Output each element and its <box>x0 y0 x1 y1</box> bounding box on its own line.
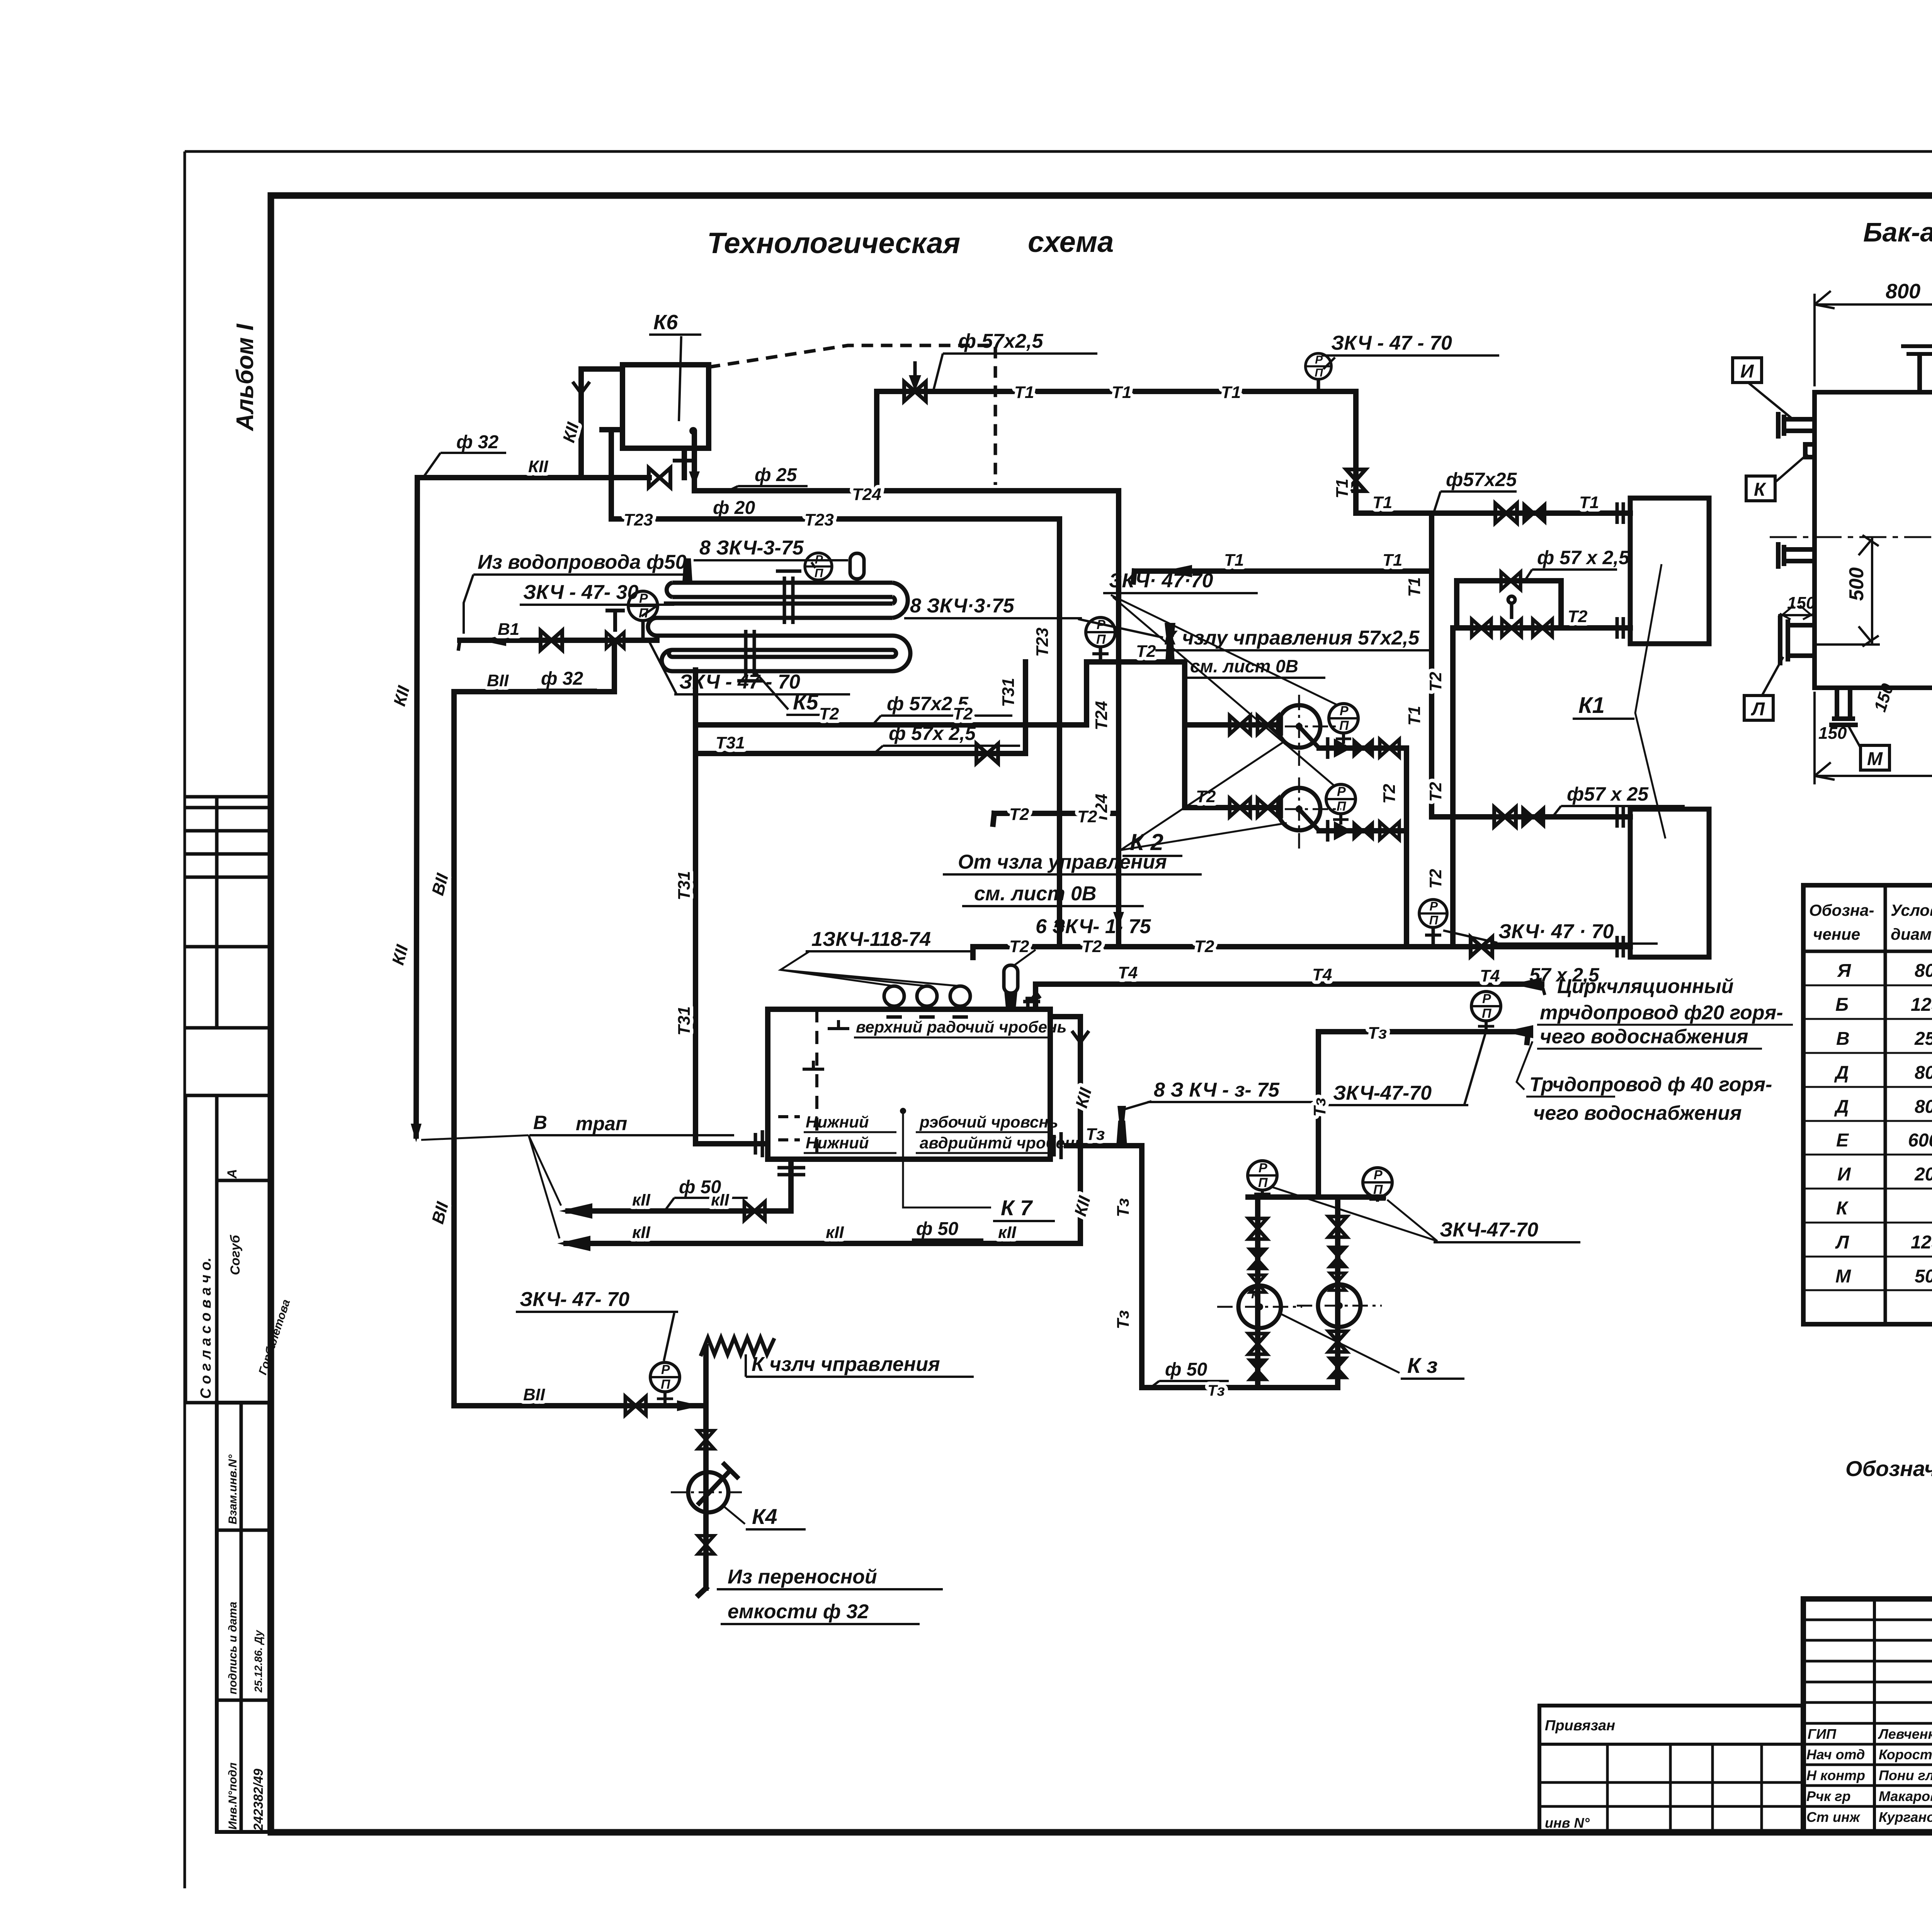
svg-text:трап: трап <box>576 1113 627 1134</box>
svg-text:Т1: Т1 <box>1405 706 1424 726</box>
flange K1a T2 <box>1617 617 1623 639</box>
manhole neck <box>1920 354 1932 392</box>
svg-text:Нижний: Нижний <box>806 1113 869 1131</box>
wire T3 tank nozzle <box>1066 1143 1142 1148</box>
svg-text:Условнтй: Условнтй <box>1891 901 1932 919</box>
svg-text:25: 25 <box>1914 1029 1932 1049</box>
svg-text:емкости ф 32: емкости ф 32 <box>728 1600 869 1623</box>
svg-text:Рчк гр: Рчк гр <box>1806 1788 1850 1804</box>
svg-text:Е: Е <box>1836 1130 1849 1151</box>
svg-text:Нач отд: Нач отд <box>1806 1747 1865 1762</box>
svg-text:242382/49: 242382/49 <box>251 1769 266 1831</box>
wire from control unit line <box>994 811 1119 816</box>
wire T31 feed into tank <box>696 1141 767 1146</box>
svg-text:Я: Я <box>1837 961 1851 981</box>
gauge on B1 <box>628 591 658 640</box>
sensor stub on T2 bridge <box>1165 623 1175 662</box>
K6 inner dot <box>689 427 697 435</box>
svg-text:кII: кII <box>998 1223 1017 1242</box>
svg-text:ЗКЧ-47-70: ЗКЧ-47-70 <box>1440 1219 1538 1241</box>
svg-text:ЗКЧ - 47 - 70: ЗКЧ - 47 - 70 <box>1331 332 1452 354</box>
K7 internal level marks <box>778 1009 849 1153</box>
svg-text:М: М <box>1835 1266 1851 1287</box>
svg-text:Т1: Т1 <box>1405 577 1424 597</box>
gauge K3 left <box>1248 1161 1277 1197</box>
wire K11 horizontal <box>417 475 649 480</box>
svg-text:Н контр: Н контр <box>1806 1767 1865 1783</box>
svg-text:Технологическая: Технологическая <box>707 227 960 260</box>
svg-text:80: 80 <box>1915 1097 1932 1117</box>
wire pump outlet manifold down <box>1404 748 1409 947</box>
svg-text:ГИП: ГИП <box>1808 1726 1837 1742</box>
svg-text:Т2: Т2 <box>1426 869 1445 889</box>
vent Y symbol <box>573 382 590 405</box>
label box K <box>1746 454 1808 501</box>
wire riser to T1 <box>874 391 879 491</box>
gauge on T3 <box>1471 992 1501 1032</box>
svg-text:Т4: Т4 <box>1480 966 1500 985</box>
wire vent loop top <box>581 369 622 478</box>
wire T3 riser down <box>1142 1146 1338 1388</box>
svg-text:150: 150 <box>1818 724 1847 743</box>
svg-text:Т2: Т2 <box>1426 782 1445 802</box>
valves on K1a T2 main <box>1472 619 1491 637</box>
wire T4 line <box>1036 981 1542 987</box>
K1 accumulator tank b <box>1630 809 1709 957</box>
K1 accumulator tank a <box>1630 498 1709 644</box>
svg-text:6 ЗКЧ- 1- 75: 6 ЗКЧ- 1- 75 <box>1036 915 1151 938</box>
svg-text:Пони глка: Пони глка <box>1879 1767 1932 1783</box>
svg-text:рэбочий чровснь: рэбочий чровснь <box>919 1113 1058 1131</box>
label T3 rot K3 riser <box>1310 1098 1329 1117</box>
svg-text:Д: Д <box>1834 1063 1849 1083</box>
svg-text:Т1: Т1 <box>1221 383 1241 402</box>
svg-text:Т24: Т24 <box>1092 701 1111 730</box>
wire lower pump outlet <box>1319 828 1406 833</box>
label k uzlu upravleniya K4 <box>746 1353 974 1377</box>
svg-text:Трчдопровод ф 40 горя-: Трчдопровод ф 40 горя- <box>1529 1073 1772 1096</box>
K3 left valves above <box>1248 1218 1267 1239</box>
label ZK4-47-70 K3 <box>1272 1187 1580 1242</box>
svg-text:ЗКЧ· 47 · 70: ЗКЧ· 47 · 70 <box>1498 920 1614 943</box>
dim 500 inside left <box>1816 535 1880 646</box>
svg-text:Коростелев: Коростелев <box>1879 1747 1932 1762</box>
valves on K1b top feed <box>1494 807 1516 827</box>
wire T2 down to pumps <box>1182 662 1187 808</box>
K7 top cap stub <box>1023 993 1040 1009</box>
svg-text:В1: В1 <box>498 620 519 639</box>
svg-text:чего водоснабжения: чего водоснабжения <box>1533 1102 1742 1124</box>
svg-text:Т24: Т24 <box>852 485 881 504</box>
svg-text:Л: Л <box>1751 699 1765 719</box>
K3 pump left <box>1217 1286 1302 1328</box>
K3 pump right <box>1297 1284 1382 1327</box>
title block main frame <box>1803 1599 1932 1832</box>
arrow on T3 <box>1503 1025 1533 1038</box>
wire B11 bottom run <box>454 1403 701 1408</box>
svg-text:80: 80 <box>1915 961 1932 981</box>
svg-text:В: В <box>1836 1029 1850 1049</box>
stem valve on B1 <box>605 611 625 648</box>
label cirk line <box>1537 975 1793 1049</box>
svg-text:схема: схема <box>1028 226 1114 259</box>
svg-text:Т2: Т2 <box>1380 784 1399 804</box>
B11 arrow mark <box>479 634 506 646</box>
svg-text:В: В <box>533 1112 547 1133</box>
svg-text:Тз: Тз <box>1368 1024 1387 1043</box>
svg-text:Из водопровода ф50: Из водопровода ф50 <box>478 551 687 573</box>
wire T1 riser mid <box>1429 513 1434 817</box>
wire T4 stub riser <box>1033 984 1038 1009</box>
svg-text:Т4: Т4 <box>1312 965 1332 984</box>
svg-text:ф57 х 25: ф57 х 25 <box>1567 783 1649 805</box>
svg-text:К4: К4 <box>752 1504 777 1529</box>
table header <box>1809 901 1932 943</box>
svg-text:К6: К6 <box>653 311 678 334</box>
wire T2 riser mid <box>1450 628 1456 947</box>
wire T1 top line <box>877 389 1356 394</box>
svg-text:ЗКЧ- 47- 70: ЗКЧ- 47- 70 <box>520 1288 629 1311</box>
arrow on control line <box>1163 565 1192 577</box>
svg-text:И: И <box>1837 1164 1851 1185</box>
svg-text:8 ЗКЧ·3·75: 8 ЗКЧ·3·75 <box>910 595 1015 617</box>
svg-text:Тз: Тз <box>1207 1382 1225 1399</box>
svg-text:Т4: Т4 <box>1118 963 1138 982</box>
svg-text:ф 57 х 2,5: ф 57 х 2,5 <box>1537 547 1630 568</box>
svg-text:600: 600 <box>1908 1130 1932 1151</box>
T3 sensor stub <box>1116 1106 1127 1146</box>
thin outer border left <box>184 151 186 1888</box>
svg-text:Альбом I: Альбом I <box>232 323 259 432</box>
wire T23 riser <box>1057 519 1062 947</box>
svg-text:К: К <box>1836 1198 1849 1219</box>
svg-text:150: 150 <box>1787 594 1816 612</box>
svg-text:Взам.инв.N°: Взам.инв.N° <box>226 1454 239 1524</box>
svg-text:Т1: Т1 <box>1014 383 1034 402</box>
pump K2 lower <box>1257 777 1341 852</box>
fittings table <box>1803 885 1932 1324</box>
gauge on T2 bridge <box>1086 617 1115 662</box>
K7 labels <box>421 915 1500 1329</box>
valve on K1a bypass <box>1501 572 1520 590</box>
main frame <box>271 196 1932 1832</box>
wire T23 line <box>611 516 1060 522</box>
svg-text:Согуб: Согуб <box>228 1235 243 1275</box>
svg-text:С о г л а с о в а ч о.: С о г л а с о в а ч о. <box>198 1257 214 1399</box>
svg-text:125: 125 <box>1911 1232 1932 1253</box>
svg-text:Т23: Т23 <box>1033 628 1052 657</box>
K7 level gauges <box>884 986 970 1017</box>
svg-text:Бак-аккумулятор: Бак-аккумулятор <box>1863 217 1932 247</box>
wire T2 upper bridge <box>1087 659 1185 665</box>
K7 top instrument capsule <box>1004 965 1018 1009</box>
svg-text:кII: кII <box>632 1190 651 1209</box>
svg-text:ЗКЧ - 47 - 70: ЗКЧ - 47 - 70 <box>679 671 800 693</box>
label K4 <box>724 1504 806 1529</box>
svg-text:кII: кII <box>826 1223 844 1242</box>
attachment table left <box>1539 1706 1803 1832</box>
svg-text:Т2: Т2 <box>1426 672 1445 692</box>
wire to control unit line <box>1134 568 1432 574</box>
gauge K2 lower <box>1326 784 1355 825</box>
wire T2 step up <box>1084 662 1089 725</box>
wire T1 drop right <box>1353 391 1359 513</box>
K7 level texts <box>804 1018 1084 1153</box>
svg-text:25.12.86. Ду: 25.12.86. Ду <box>252 1630 264 1693</box>
centerline tank <box>1770 536 1932 538</box>
svg-text:Т2: Т2 <box>1077 807 1097 826</box>
flange K1b top <box>1617 806 1623 828</box>
label ZK4-47-70 T3 <box>1327 1031 1486 1105</box>
svg-text:Т1: Т1 <box>1112 383 1131 402</box>
gauge on K5 <box>805 553 832 583</box>
svg-text:подпись и дата: подпись и дата <box>226 1602 239 1694</box>
flange K1b bottom <box>1617 936 1623 957</box>
svg-text:К 7: К 7 <box>1001 1196 1033 1220</box>
arrow down on K6 drop <box>689 471 700 486</box>
wire K3 left branch <box>1255 1197 1260 1388</box>
label box M <box>1847 723 1889 770</box>
svg-text:верхний радочий чробень: верхний радочий чробень <box>856 1018 1066 1036</box>
T3 nozzle flange <box>1050 1132 1061 1159</box>
K3 right valves below <box>1328 1331 1347 1352</box>
SECTION:SCHEMA2 <box>566 984 1542 1595</box>
svg-text:К чзлу чправления 57х2,5: К чзлу чправления 57х2,5 <box>1164 627 1420 649</box>
svg-text:К: К <box>1754 480 1767 500</box>
svg-text:Обозна-: Обозна- <box>1809 901 1874 919</box>
svg-text:М: М <box>1867 749 1883 769</box>
wire T-cap stub <box>609 430 614 519</box>
svg-text:ЗКЧ· 47·70: ЗКЧ· 47·70 <box>1109 570 1213 592</box>
svg-text:Т31: Т31 <box>716 733 745 752</box>
sensor stub on K5 <box>682 558 692 583</box>
check and valves on lower outlet <box>1328 820 1399 842</box>
check and valves on upper outlet <box>1328 737 1399 759</box>
wire T3 riser up <box>1316 1032 1321 1197</box>
svg-text:500: 500 <box>1845 567 1868 601</box>
control impulse dashed line <box>709 345 995 485</box>
wire T24 riser <box>1116 491 1121 947</box>
three-way valve on T1 <box>904 361 926 401</box>
arrow on T4 <box>1512 978 1542 991</box>
svg-text:ЗКЧ-47-70: ЗКЧ-47-70 <box>1333 1082 1432 1104</box>
gauge on T1 <box>1306 354 1332 391</box>
label iz perenosnoy <box>717 1566 943 1624</box>
wire T2 from K5 <box>696 722 1087 728</box>
svg-text:Левченкова: Левченкова <box>1878 1726 1932 1742</box>
svg-text:ф 57х2,5: ф 57х2,5 <box>958 330 1044 352</box>
valve pair on K1a T1 branch <box>1495 503 1517 523</box>
hose zigzag <box>701 1338 774 1354</box>
label box L <box>1744 657 1783 720</box>
arrow drain2 <box>557 1236 590 1251</box>
valves upper pump suction <box>1230 716 1250 734</box>
svg-text:Б: Б <box>1835 995 1849 1015</box>
svg-text:Л: Л <box>1835 1232 1849 1253</box>
svg-text:ф 57х 2,5: ф 57х 2,5 <box>889 723 976 744</box>
thermo capsule on K5 <box>850 553 864 583</box>
svg-text:8 ЗКЧ-3-75: 8 ЗКЧ-3-75 <box>699 537 804 559</box>
wire T3 upper line <box>1318 1029 1528 1034</box>
valve on K11 <box>649 468 670 487</box>
valve on drain1 <box>744 1202 765 1220</box>
vent Y on overflow riser <box>1072 1031 1089 1053</box>
svg-text:Курганова: Курганова <box>1879 1809 1932 1825</box>
label f50 T3 <box>1151 1359 1229 1399</box>
gauge on K1b bottom line <box>1419 899 1447 947</box>
svg-text:диаметр: диаметр <box>1891 925 1932 943</box>
svg-text:Т23: Т23 <box>624 510 653 529</box>
left columns <box>1873 1599 1876 1832</box>
svg-text:Тз: Тз <box>1086 1125 1105 1144</box>
wire T31 riser short <box>1023 662 1028 753</box>
wire T1 branch to tank K1a <box>1356 510 1630 516</box>
svg-text:ЗКЧ - 47- 30: ЗКЧ - 47- 30 <box>523 581 639 604</box>
svg-text:ф 32: ф 32 <box>456 432 499 452</box>
svg-text:125: 125 <box>1911 995 1932 1015</box>
label box I <box>1733 358 1793 419</box>
wire T31 horizontal <box>696 751 1026 756</box>
svg-text:кII: кII <box>632 1223 651 1242</box>
svg-text:ф 25: ф 25 <box>755 465 798 485</box>
dim 800 <box>1815 291 1932 386</box>
svg-text:Т1: Т1 <box>1224 551 1244 570</box>
wire overflow riser <box>1050 1017 1080 1243</box>
svg-text:Т2: Т2 <box>819 704 839 723</box>
K7 tank <box>768 1009 1050 1159</box>
nozzle I left top <box>1778 412 1815 439</box>
svg-text:Т2: Т2 <box>953 704 973 723</box>
flange under K6 <box>673 459 696 463</box>
valve on B1 <box>541 631 562 650</box>
wire B11 branch <box>454 640 614 1406</box>
arrow end of K11 riser <box>411 1124 422 1142</box>
svg-text:20: 20 <box>1914 1164 1932 1185</box>
SECTION:SCHEMA4 <box>388 311 1685 1226</box>
svg-text:ф57х25: ф57х25 <box>1446 469 1517 490</box>
gauge on B11 bottom <box>650 1362 680 1406</box>
wire B1 inlet <box>460 638 657 643</box>
svg-text:Т23: Т23 <box>804 510 834 529</box>
svg-text:ВII: ВII <box>487 671 509 690</box>
svg-text:1ЗКЧ-118-74: 1ЗКЧ-118-74 <box>811 928 931 951</box>
label trubprovod f40 <box>1517 1041 1772 1124</box>
svg-text:Т31: Т31 <box>675 1006 694 1036</box>
valve above K4 <box>698 1430 714 1449</box>
svg-text:кII: кII <box>711 1190 730 1209</box>
svg-text:Д: Д <box>1834 1097 1849 1117</box>
svg-text:Тз: Тз <box>1114 1310 1133 1329</box>
wire K3 right branch <box>1335 1197 1340 1388</box>
svg-text:Т2: Т2 <box>1009 805 1029 824</box>
valves lower pump suction <box>1230 798 1250 817</box>
valve below K4 <box>698 1536 714 1554</box>
left margin approval strip <box>185 797 271 1832</box>
K3 right valves above <box>1328 1216 1347 1237</box>
K3 left valves below <box>1248 1333 1267 1354</box>
svg-text:инв N°: инв N° <box>1545 1815 1590 1831</box>
svg-text:50: 50 <box>1915 1266 1932 1287</box>
svg-text:А: А <box>225 1169 240 1179</box>
svg-text:Из переносной: Из переносной <box>728 1566 877 1588</box>
svg-text:К1: К1 <box>1578 693 1605 718</box>
valve on B11 bottom <box>625 1396 646 1415</box>
accumulator tank side view <box>1778 346 1932 725</box>
valve on K1b bottom <box>1471 937 1492 956</box>
svg-text:Т2: Т2 <box>1136 642 1156 661</box>
svg-text:Обозначение: Обозначение <box>1845 1456 1932 1481</box>
T31 tank inlet flange <box>755 1130 762 1157</box>
svg-text:80: 80 <box>1915 1063 1932 1083</box>
wire K11 long riser <box>416 478 417 1136</box>
svg-text:К чзлч чправления: К чзлч чправления <box>752 1353 940 1376</box>
flange K1a T1 <box>1617 502 1623 524</box>
valve on T31 <box>976 744 998 763</box>
svg-text:Т1: Т1 <box>1579 493 1599 512</box>
svg-text:Привязан: Привязан <box>1545 1718 1615 1734</box>
wire K1b top feed <box>1432 814 1630 820</box>
svg-text:ф 50: ф 50 <box>1165 1359 1207 1380</box>
arrow up on T23 riser <box>1054 912 1065 927</box>
wire K4 riser <box>703 1347 709 1588</box>
table rows <box>1834 961 1932 1287</box>
svg-text:ф 20: ф 20 <box>713 498 755 518</box>
pump K2 upper <box>1257 695 1341 769</box>
K5 flange bolts top <box>783 577 786 624</box>
K6 expansion box <box>622 365 709 448</box>
label K3 <box>1279 1313 1464 1379</box>
svg-text:чение: чение <box>1813 925 1860 943</box>
arrow down on T24 riser <box>1113 912 1124 927</box>
wire K6 down drop <box>692 433 697 491</box>
svg-text:Ст инж: Ст инж <box>1806 1809 1861 1825</box>
svg-text:Тз: Тз <box>1114 1198 1133 1217</box>
svg-text:От чзла управления: От чзла управления <box>958 851 1167 873</box>
svg-text:Т31: Т31 <box>999 678 1018 707</box>
svg-text:К з: К з <box>1407 1353 1438 1378</box>
svg-text:Т2: Т2 <box>1568 607 1588 626</box>
valve on T1 drop <box>1346 469 1366 491</box>
wire T2 return manifold <box>973 944 1630 949</box>
wire K1a T2 main <box>1457 625 1630 631</box>
wire upper pump suction <box>1185 722 1279 728</box>
svg-text:см. лист 0В: см. лист 0В <box>1190 656 1298 676</box>
label BII bottom <box>523 1385 545 1404</box>
K5 flange bolts bottom <box>744 630 748 677</box>
SECTION:SCHEMA <box>416 365 1630 1406</box>
wire upper pump outlet <box>1319 745 1406 751</box>
K5 heat exchanger coil <box>648 571 910 681</box>
svg-text:Инв.N°подл: Инв.N°подл <box>226 1762 239 1830</box>
wire drain1 <box>568 1208 791 1214</box>
svg-text:трчдопровод ф20 горя-: трчдопровод ф20 горя- <box>1540 1002 1783 1024</box>
svg-text:Т2: Т2 <box>1194 937 1214 956</box>
K4 flow meter <box>671 1463 746 1512</box>
wire K3 top manifold <box>1248 1194 1383 1200</box>
svg-text:ф 32: ф 32 <box>541 668 583 689</box>
arrow drain1 <box>559 1203 592 1219</box>
svg-text:Т31: Т31 <box>675 871 694 900</box>
svg-text:ВII: ВII <box>523 1385 545 1404</box>
dim 1800 <box>1815 668 1932 784</box>
label ZK4-47-70 K4 <box>516 1288 678 1361</box>
wire K7 drain stub <box>788 1159 794 1211</box>
svg-text:Нижний: Нижний <box>806 1134 869 1152</box>
svg-text:Т2: Т2 <box>1082 937 1102 956</box>
K7 drain flange <box>777 1168 805 1175</box>
svg-text:Т1: Т1 <box>1372 493 1392 512</box>
nozzle M bottom <box>1829 688 1858 725</box>
